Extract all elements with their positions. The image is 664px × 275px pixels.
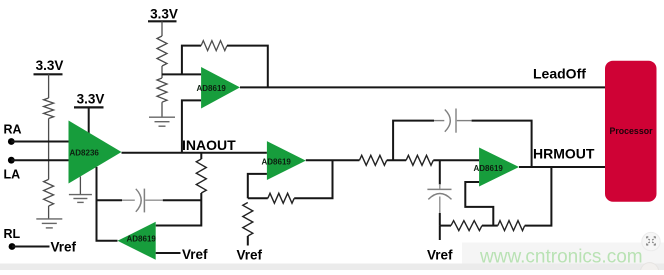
svg-text:www.cntronics.com: www.cntronics.com [479,247,643,268]
resistor R9 (series) [359,155,386,165]
svg-text:Vref: Vref [51,240,77,255]
wire U2 feedback loop [182,46,201,75]
wire RA to U1 [11,141,68,143]
resistor R6 (integrator input) [196,159,206,193]
wire U2 non-inverting input from INAOUT [182,100,201,152]
svg-text:INAOUT: INAOUT [182,137,236,153]
resistor R12 (stage3 fb) [498,221,525,231]
node LA terminal [4,157,21,182]
wire U1 ground stub [79,177,81,195]
floating widget circle (partial bottom) [640,263,658,275]
wire C2 feedback right leg [472,121,532,167]
op-amp U1 AD8236 in-amp [69,121,122,184]
op-amp U4 AD8619 gain stage [262,141,306,180]
resistor R7 (U4 feedback) [268,193,294,203]
wire U5 non-inverting input network [465,182,493,226]
svg-text:AD8619: AD8619 [127,234,157,243]
resistor R1 (RA bias) [44,98,54,119]
wire LA line to resistor R2 [48,160,50,179]
power rail 3.3V label (U1 supply) [74,91,104,107]
wire U4 output line [306,159,360,161]
ground (U1) [69,195,92,203]
svg-text:RL: RL [4,227,21,241]
wire 3.3V rail to resistor R1 [48,74,50,98]
op-amp U3 AD8619 integrator [118,222,157,260]
watermark backdrop panel [462,243,664,271]
svg-text:Vref: Vref [237,248,263,263]
power rail 3.3V label (lead-off divider) [148,6,178,21]
wire R4 to ground [161,102,163,116]
resistor R5 (lead-off feedback) [201,41,227,51]
resistor R10 (series) [406,155,433,165]
wire C2 feedback left leg [393,121,434,161]
wire U3 output to U1 ref pin [97,167,118,241]
svg-text:LeadOff: LeadOff [533,65,586,81]
wire HRMOUT to processor [519,166,605,168]
node RA terminal [4,123,22,145]
wire R6 to U3 inverting input [156,193,202,226]
svg-text:Vref: Vref [182,247,208,262]
svg-text:Vref: Vref [427,248,453,263]
capacitor C2 (feedback) [434,109,472,133]
svg-text:Processor: Processor [609,126,653,136]
wire R3 to node [161,66,163,78]
floating widget circle (move icon) [642,232,660,250]
resistor R8 (U4 gain to Vref) [243,203,253,237]
wire R9 to R10 [387,159,406,161]
op-amp U2 AD8619 lead-off comparator [197,67,241,109]
wire feedback to output [294,160,332,198]
wire rail to R3 [161,21,163,36]
wire C3 to Vref [439,226,441,240]
wire LA to U1 [11,159,68,161]
node RL terminal [4,227,21,250]
svg-text:AD8619: AD8619 [474,164,504,173]
wire U4 inverting input loop [248,174,267,198]
wire U1 output INAOUT line [122,152,267,154]
svg-text:AD8236: AD8236 [70,149,100,158]
svg-text:AD8619: AD8619 [262,157,292,166]
capacitor C3 (Vref shunt) [427,184,451,226]
svg-text:3.3V: 3.3V [150,6,178,21]
wire C3 top leg [439,160,441,184]
wire bottom feedback left [440,225,451,227]
svg-text:3.3V: 3.3V [77,91,105,106]
processor block [605,61,657,202]
ground (divider) [149,117,175,126]
wire R8 to Vref [247,236,249,246]
wire LeadOff to processor [240,86,605,88]
wire divider node to U2 inverting input [162,73,201,75]
wire R11 to R12 [482,225,498,227]
power rail 3.3V label (left bias) [34,58,64,75]
wire INAOUT to R6 [200,153,202,159]
wire R2 to ground [48,206,50,219]
capacitor C1 (integrator) [97,189,202,213]
bottom page band [0,264,664,271]
wire U1 supply [88,107,90,133]
resistor R11 (stage3 fb) [451,221,482,231]
svg-text:LA: LA [4,168,21,182]
svg-text:HRMOUT: HRMOUT [533,146,595,162]
resistor R2 (LA bias) [44,179,54,206]
wire RL to Vref [12,246,50,248]
wire R7 to U4 output [248,197,268,199]
svg-text:RA: RA [4,123,22,137]
op-amp U5 AD8619 output stage [474,148,520,187]
svg-text:3.3V: 3.3V [36,58,64,73]
wire R5 to output [227,46,268,88]
resistor R4 (divider bottom) [157,78,167,102]
svg-text:AD8619: AD8619 [197,84,227,93]
wire U3 Vref input [156,252,181,254]
wire R1 to RA/LA lines [48,119,50,161]
wire R12 to output [525,167,552,226]
ground (left bias chain) [36,219,62,228]
wire R10 to U5 [433,159,479,161]
resistor R3 (divider top) [157,36,167,66]
